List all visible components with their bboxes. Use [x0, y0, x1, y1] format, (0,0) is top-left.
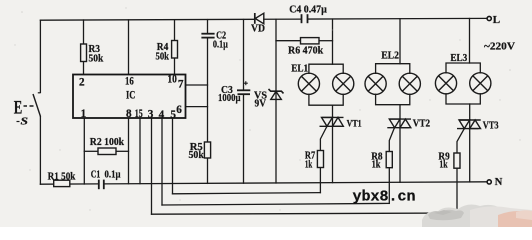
svg-text:0.1µ: 0.1µ — [105, 168, 122, 180]
wire R3 to IC pin 2 — [83, 62, 85, 75]
triac VT1 — [320, 117, 344, 126]
wire top rail left section — [40, 18, 254, 21]
svg-text:16: 16 — [125, 75, 134, 87]
wire IC pin 1 column — [83, 118, 85, 184]
svg-text:R1 50k: R1 50k — [48, 170, 76, 182]
wire R6 right lead — [319, 40, 333, 42]
resistor R9 — [454, 153, 460, 168]
wire R3 top lead — [83, 20, 85, 44]
wire switch upper column — [39, 20, 41, 92]
wire EL1 top bar — [309, 64, 343, 73]
svg-text:50k: 50k — [89, 52, 104, 64]
wire R4 to IC pin 10 — [174, 58, 176, 75]
wire EL2 bottom bar — [376, 94, 410, 104]
wire bottom N rail left of C1 — [40, 183, 98, 185]
wire switch lower column — [39, 117, 41, 185]
wire R6 left lead — [276, 40, 301, 42]
capacitor C4 — [302, 14, 308, 23]
resistor R7 — [317, 151, 323, 168]
zener diode VS — [269, 89, 284, 99]
diode VD — [255, 13, 264, 24]
wire IC pin 4 column — [161, 118, 163, 205]
wire EL3 to VT3 — [469, 104, 471, 182]
wire EL1 to VT1 — [332, 105, 334, 182]
wire IC pin 6 — [186, 106, 208, 108]
capacitor C3 — [237, 90, 250, 94]
svg-text:R2 100k: R2 100k — [90, 136, 124, 148]
wire R2 left lead — [84, 150, 98, 152]
svg-text:1000µ: 1000µ — [218, 92, 241, 104]
lamp EL2 right — [399, 73, 420, 94]
wire top rail middle section — [264, 18, 301, 20]
svg-text:R6 470k: R6 470k — [288, 44, 323, 56]
svg-text:ybx8.cn: ybx8.cn — [353, 189, 416, 206]
watermark blob pink — [498, 211, 532, 227]
wire EL3 bottom bar — [446, 94, 480, 104]
terminal L — [487, 16, 491, 20]
resistor R5 — [204, 142, 210, 158]
wire pin3 to R9 gate run — [152, 213, 458, 214]
wire IC pin 16 column — [128, 20, 130, 75]
wire EL1 bottom bar — [309, 94, 343, 105]
watermark blob gray cloud — [422, 205, 503, 227]
wire C3 column upper — [243, 20, 245, 91]
resistor R8 — [386, 152, 392, 168]
terminal N — [487, 180, 491, 184]
wire C2 rail upper — [207, 20, 209, 33]
wire IC pin 7 — [186, 84, 208, 86]
svg-text:2: 2 — [79, 77, 85, 89]
wire R8 bottom lead — [388, 168, 390, 204]
svg-text:3: 3 — [148, 109, 154, 121]
wire EL2 top bar — [376, 64, 410, 74]
svg-text:EL1: EL1 — [291, 63, 308, 75]
svg-text:1: 1 — [81, 108, 87, 120]
lamp EL3 left — [435, 73, 456, 94]
IC U1 box — [73, 75, 186, 119]
wire pin4 to R8 gate run — [162, 203, 389, 205]
svg-text:VT2: VT2 — [413, 118, 430, 129]
svg-text:4: 4 — [159, 109, 165, 121]
wire IC pin 5 column — [172, 118, 174, 194]
svg-text:0.1µ: 0.1µ — [213, 38, 229, 50]
wire bottom N rail right of C1 — [104, 182, 487, 184]
triac VT2 — [387, 119, 411, 128]
wire R7 bottom lead — [319, 168, 321, 193]
wire top rail right section to L — [308, 17, 487, 20]
lamp EL1 left — [298, 73, 319, 94]
svg-text:C4 0.47µ: C4 0.47µ — [289, 3, 327, 15]
capacitor C2 — [201, 34, 214, 38]
svg-text:1k: 1k — [305, 158, 312, 170]
svg-text:10: 10 — [167, 74, 177, 86]
svg-text:1k: 1k — [372, 159, 381, 171]
svg-text:8: 8 — [126, 108, 132, 120]
wire VT3 gate lead — [457, 129, 464, 153]
svg-text:VD: VD — [251, 23, 265, 35]
wire VT1 gate lead — [320, 127, 326, 151]
svg-text:N: N — [495, 177, 503, 188]
wire R2 right lead — [116, 150, 129, 152]
wire C2 rail middle — [207, 38, 209, 142]
svg-text:L: L — [493, 14, 500, 26]
switch S plug E symbol — [24, 105, 34, 107]
svg-text:6: 6 — [176, 104, 182, 116]
svg-text:VT1: VT1 — [347, 119, 362, 129]
svg-text:1k: 1k — [439, 159, 447, 171]
wire C3 column lower — [243, 95, 245, 184]
svg-text:50k: 50k — [189, 149, 204, 161]
resistor R3 — [81, 44, 87, 62]
svg-text:7: 7 — [178, 79, 184, 91]
wire IC pin 15 column — [139, 118, 141, 184]
svg-text:EL2: EL2 — [381, 50, 399, 62]
switch S blade — [33, 94, 41, 117]
wire IC pin 3 column — [151, 118, 153, 214]
wire EL1 feed column — [332, 19, 334, 64]
svg-text:C1: C1 — [91, 168, 101, 180]
wire R4 top lead — [174, 20, 176, 41]
wire EL3 top bar — [446, 63, 480, 73]
resistor R6 — [301, 38, 320, 44]
svg-text:~220V: ~220V — [484, 40, 515, 52]
resistor R2 — [98, 148, 116, 155]
svg-text:50k: 50k — [156, 50, 170, 62]
capacitor C1 — [99, 180, 104, 190]
watermark blob pink light edge — [516, 210, 532, 220]
resistor R4 — [172, 41, 178, 59]
lamp EL1 right — [333, 73, 354, 94]
resistor R1 — [54, 180, 70, 186]
wire VT2 gate lead — [389, 128, 394, 152]
wire EL2 to VT2 — [399, 105, 401, 183]
switch S fixed contact tick — [38, 92, 41, 94]
lamp EL2 left — [365, 73, 386, 94]
watermark blob light right — [470, 206, 532, 227]
svg-text:EL3: EL3 — [450, 52, 467, 64]
svg-text:9V: 9V — [255, 97, 267, 109]
wire pin5 to R7 gate run — [173, 193, 321, 194]
svg-text:15: 15 — [135, 108, 143, 120]
triac VT3 — [457, 120, 481, 129]
wire C2 rail lower below R5 — [207, 158, 209, 183]
wire IC pin 8 column — [128, 118, 130, 184]
wire EL2 feed column — [399, 19, 401, 64]
svg-text:S: S — [21, 116, 29, 128]
lamp EL3 right — [470, 73, 491, 94]
wire VS column — [275, 19, 277, 183]
wire EL3 feed column — [469, 19, 471, 64]
svg-text:IC: IC — [126, 90, 135, 102]
wire R9 bottom lead — [456, 168, 458, 213]
svg-text:VT3: VT3 — [483, 120, 499, 131]
